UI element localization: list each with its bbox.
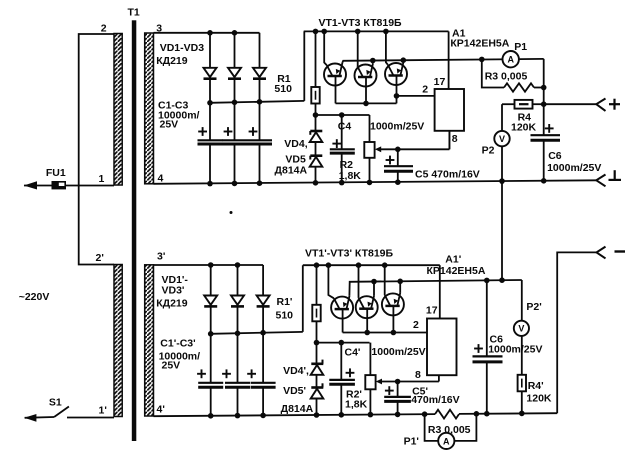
svg-text:1000m/25V: 1000m/25V: [370, 121, 424, 133]
svg-text:КР142ЕН5А: КР142ЕН5А: [450, 38, 509, 50]
svg-text:4': 4': [157, 404, 165, 416]
svg-text:A: A: [507, 55, 514, 65]
svg-text:8: 8: [452, 133, 458, 145]
svg-text:VD4,: VD4,: [284, 138, 307, 150]
svg-text:Д814А: Д814А: [281, 403, 314, 415]
svg-text:8: 8: [415, 369, 421, 381]
svg-text:25V: 25V: [162, 360, 181, 372]
svg-text:V: V: [499, 134, 505, 144]
svg-text:VD5': VD5': [283, 385, 306, 397]
svg-text:1000m/25V: 1000m/25V: [371, 346, 425, 358]
svg-text:510: 510: [274, 83, 292, 95]
svg-text:C1'-C3': C1'-C3': [160, 338, 195, 350]
svg-text:1': 1': [99, 405, 107, 417]
svg-text:R3 0,005: R3 0,005: [485, 70, 528, 82]
svg-text:3': 3': [157, 251, 165, 263]
svg-text:120K: 120K: [511, 121, 537, 133]
svg-text:C6: C6: [548, 150, 562, 162]
svg-text:2': 2': [96, 252, 104, 264]
svg-text:P2': P2': [526, 301, 541, 313]
svg-text:VD1-VD3: VD1-VD3: [160, 42, 205, 54]
svg-text:1,8K: 1,8K: [345, 399, 368, 411]
svg-text:2: 2: [422, 83, 428, 95]
svg-text:17: 17: [434, 76, 446, 88]
svg-text:C5 470m/16V: C5 470m/16V: [415, 169, 480, 181]
svg-text:VD3': VD3': [162, 285, 185, 297]
svg-text:~220V: ~220V: [19, 291, 50, 303]
svg-text:R1': R1': [277, 296, 293, 308]
svg-text:P1': P1': [404, 436, 419, 448]
svg-text:4: 4: [158, 173, 164, 185]
svg-text:2: 2: [413, 319, 419, 331]
svg-text:C4': C4': [345, 347, 361, 359]
svg-text:470m/16V: 470m/16V: [411, 394, 459, 406]
svg-text:120K: 120K: [526, 392, 552, 404]
svg-text:25V: 25V: [160, 119, 179, 131]
svg-text:КД219: КД219: [156, 298, 188, 310]
svg-text:VD4',: VD4',: [283, 365, 309, 377]
svg-text:КР142ЕН5А: КР142ЕН5А: [427, 265, 486, 277]
svg-text:S1: S1: [49, 397, 62, 409]
svg-text:2: 2: [101, 22, 107, 34]
svg-text:1000m/25V: 1000m/25V: [547, 162, 601, 174]
svg-text:P2: P2: [482, 144, 495, 156]
svg-text:1: 1: [99, 173, 105, 185]
svg-text:C4: C4: [338, 121, 352, 133]
svg-text:Д814А: Д814А: [275, 165, 308, 177]
svg-text:A: A: [443, 436, 450, 446]
svg-text:VT1'-VT3' КТ819Б: VT1'-VT3' КТ819Б: [305, 248, 394, 260]
svg-text:3: 3: [156, 23, 162, 35]
svg-text:510: 510: [276, 310, 294, 322]
svg-text:КД219: КД219: [156, 55, 188, 67]
svg-text:R3 0,005: R3 0,005: [428, 424, 471, 436]
svg-text:T1: T1: [128, 7, 140, 19]
svg-text:P1: P1: [514, 41, 527, 53]
svg-text:1,8K: 1,8K: [339, 170, 362, 182]
svg-text:VT1-VT3 КТ819Б: VT1-VT3 КТ819Б: [319, 17, 403, 29]
svg-text:17: 17: [426, 305, 438, 317]
svg-text:R4': R4': [528, 380, 544, 392]
svg-text:1000m/25V: 1000m/25V: [488, 343, 542, 355]
svg-text:V: V: [518, 324, 524, 334]
svg-text:FU1: FU1: [46, 167, 66, 179]
